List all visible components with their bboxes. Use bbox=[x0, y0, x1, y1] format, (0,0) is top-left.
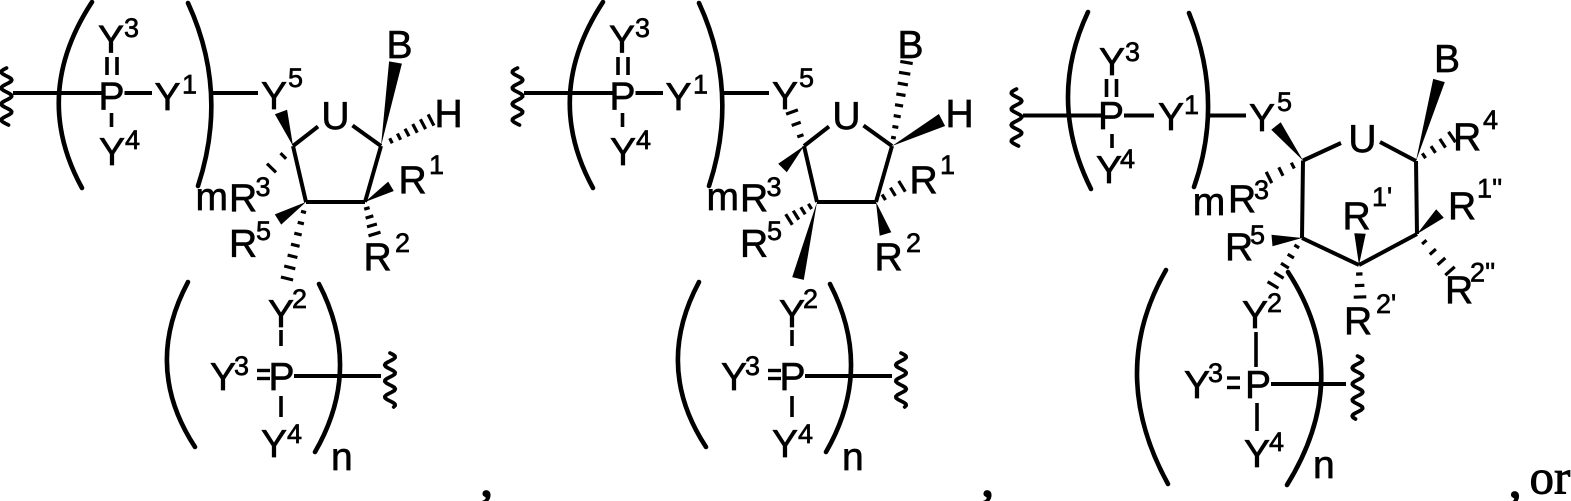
svg-text:Y: Y bbox=[609, 19, 635, 62]
svg-text:4: 4 bbox=[1120, 144, 1135, 174]
svg-text:R: R bbox=[1343, 195, 1371, 238]
left parenthesis (S3 top) bbox=[1068, 12, 1091, 189]
squiggle attachment point (S3 bottom) bbox=[1352, 356, 1363, 419]
svg-text:Y: Y bbox=[1249, 97, 1275, 140]
label Y1 (S1) bbox=[155, 70, 198, 120]
svg-text:Y: Y bbox=[610, 131, 636, 174]
wire bond squiggle-P (S2) bbox=[524, 91, 614, 95]
label Y1 (S2) bbox=[666, 70, 709, 120]
left parenthesis (S2 top) bbox=[570, 2, 603, 188]
svg-text:5: 5 bbox=[256, 216, 271, 246]
right parenthesis (S3 bottom) bbox=[1287, 272, 1321, 485]
ring bond C3-C2 (S1) bbox=[306, 200, 365, 204]
wire bond Y2-P (S1 bottom) bbox=[279, 330, 283, 346]
label R3 (S3) bbox=[1228, 175, 1269, 221]
svg-text:m: m bbox=[1193, 181, 1226, 224]
wire bond P-Y1 (S3) bbox=[1124, 114, 1154, 118]
svg-text:3: 3 bbox=[767, 172, 782, 202]
svg-text:3: 3 bbox=[1208, 358, 1223, 388]
label Y3 (S1 bottom) bbox=[210, 351, 249, 399]
wire bond squiggle-P (S3) bbox=[1023, 114, 1101, 118]
double bond Y3=P (S3 bottom) bbox=[1227, 378, 1240, 388]
svg-text:Y: Y bbox=[1244, 433, 1270, 476]
ring bond U-Ctr (S3) bbox=[1380, 142, 1416, 161]
ring bond U-C1 (S1) bbox=[353, 126, 382, 147]
label subscript m (S2) bbox=[707, 176, 740, 219]
wedge bond Ctr-B (S3) bbox=[1416, 79, 1445, 161]
right parenthesis (S3 top) bbox=[1189, 13, 1208, 187]
svg-text:5: 5 bbox=[1277, 87, 1292, 117]
svg-text:Y: Y bbox=[1099, 41, 1125, 84]
svg-text:4: 4 bbox=[1483, 105, 1498, 135]
label R2 (S2) bbox=[875, 228, 922, 279]
wire bond paren-Y5 (S3) bbox=[1206, 114, 1246, 118]
hash bond C2-R2 (S1) bbox=[364, 208, 380, 236]
svg-text:Y: Y bbox=[210, 356, 236, 399]
svg-text:Y: Y bbox=[155, 76, 181, 119]
label R5 (S1) bbox=[229, 216, 271, 266]
label U (S3) bbox=[1348, 118, 1376, 161]
svg-text:R: R bbox=[740, 177, 768, 220]
svg-text:P: P bbox=[779, 356, 805, 399]
wedge bond Cl-R5 (S3) bbox=[1272, 235, 1303, 246]
label B (S3) bbox=[1434, 38, 1460, 81]
label H (S1) bbox=[435, 93, 463, 136]
right parenthesis (S2 top) bbox=[699, 3, 722, 186]
svg-text:U: U bbox=[832, 95, 860, 138]
wedge bond C2-R1 (S1) bbox=[365, 182, 394, 202]
svg-text:3: 3 bbox=[745, 351, 760, 381]
label R2 (S1) bbox=[364, 228, 411, 279]
label Y4 (S1 top) bbox=[99, 125, 140, 174]
svg-text:n: n bbox=[1313, 444, 1335, 487]
svg-text:3: 3 bbox=[1125, 37, 1140, 67]
squiggle attachment point (S3) bbox=[1011, 89, 1022, 146]
double bond P=Y3 (S1) bbox=[107, 57, 117, 75]
svg-text:Y: Y bbox=[261, 423, 287, 466]
wire bond P-Y4 (S1 bottom) bbox=[279, 396, 283, 417]
wire bond P-Y4 (S2 bottom) bbox=[790, 396, 794, 417]
svg-text:P: P bbox=[609, 76, 635, 119]
svg-text:U: U bbox=[1348, 118, 1376, 161]
hash bond Cb-R2p (S3) bbox=[1354, 274, 1367, 297]
svg-text:3: 3 bbox=[124, 13, 139, 43]
label Y5 (S3) bbox=[1249, 87, 1292, 140]
label subscript n (S2) bbox=[842, 436, 864, 479]
svg-text:2: 2 bbox=[292, 284, 307, 314]
label U (S1) bbox=[321, 95, 349, 138]
label R1p (S3) bbox=[1343, 182, 1393, 238]
label Y4 (S1 bottom) bbox=[261, 419, 302, 466]
svg-text:R: R bbox=[229, 177, 257, 220]
ring bond U-C1 (S2) bbox=[864, 126, 893, 147]
double bond P=Y3 (S3) bbox=[1107, 79, 1117, 97]
svg-text:,: , bbox=[481, 452, 493, 501]
squiggle attachment point (S1) bbox=[1, 68, 12, 125]
double bond Y3=P (S2 bottom) bbox=[768, 371, 781, 379]
left parenthesis (S1 top) bbox=[59, 2, 92, 188]
svg-text:Y: Y bbox=[98, 19, 124, 62]
hash bond Ctr-R4 (S3) bbox=[1422, 132, 1455, 158]
right parenthesis (S1 top) bbox=[188, 3, 211, 186]
svg-text:5: 5 bbox=[288, 63, 303, 93]
svg-text:n: n bbox=[331, 436, 353, 479]
svg-text:4: 4 bbox=[798, 419, 813, 449]
hash bond C3-R5 (S2) bbox=[786, 204, 812, 225]
left parenthesis (S1 bottom) bbox=[167, 282, 195, 447]
label P (S3 top) bbox=[1098, 95, 1124, 138]
svg-text:or: or bbox=[1530, 450, 1571, 501]
svg-text:1: 1 bbox=[429, 150, 444, 180]
wire bond P-squiggle (S3 bottom) bbox=[1271, 382, 1346, 386]
wedge bond C2-R2 (S2) bbox=[876, 202, 891, 236]
svg-text:2: 2 bbox=[803, 284, 818, 314]
wire bond P-squiggle (S2 bottom) bbox=[805, 374, 892, 378]
left parenthesis (S3 bottom) bbox=[1137, 270, 1168, 484]
label Y2 (S1) bbox=[268, 284, 307, 336]
hash bond C3-Y2 (S1) bbox=[281, 211, 306, 280]
ring bond C4-C3 (S1) bbox=[293, 146, 306, 202]
svg-text:Y: Y bbox=[1096, 149, 1122, 192]
svg-text:Y: Y bbox=[99, 131, 125, 174]
label P (S1 top) bbox=[98, 76, 124, 119]
ring bond U-C4 (S1) bbox=[293, 127, 318, 147]
svg-text:U: U bbox=[321, 95, 349, 138]
label subscript n (S1) bbox=[331, 436, 353, 479]
label R4 (S3) bbox=[1453, 105, 1498, 159]
svg-text:P: P bbox=[268, 356, 294, 399]
svg-text:1: 1 bbox=[1184, 90, 1199, 120]
svg-text:3: 3 bbox=[635, 13, 650, 43]
svg-text:Y: Y bbox=[1158, 96, 1184, 139]
label R1 (S2) bbox=[910, 150, 956, 202]
label Y4 (S3 bottom) bbox=[1244, 427, 1284, 476]
svg-text:4: 4 bbox=[125, 125, 140, 155]
label P (S2 bottom) bbox=[779, 356, 805, 399]
label B (S2) bbox=[898, 24, 924, 67]
label Y2 (S3) bbox=[1242, 288, 1282, 337]
label Y4 (S2 top) bbox=[610, 125, 651, 174]
svg-text:m: m bbox=[196, 176, 229, 219]
hash bond C1-B (S2) bbox=[891, 61, 913, 138]
label B (S1) bbox=[387, 24, 413, 67]
hash bond Ctl-R3 (S3) bbox=[1266, 163, 1294, 183]
wire bond squiggle-P (S1) bbox=[13, 91, 103, 95]
wire bond Y2-P (S3 bottom) bbox=[1254, 332, 1258, 367]
svg-text:2: 2 bbox=[906, 228, 921, 258]
wire bond P-Y4 (S1 top) bbox=[110, 113, 114, 127]
label Y3 (S1 top) bbox=[98, 13, 139, 62]
svg-text:R: R bbox=[910, 159, 938, 202]
wedge bond C3-Y2 (S2) bbox=[792, 202, 817, 280]
hash bond C2-R1 (S2) bbox=[882, 181, 905, 200]
wire bond P-Y4 (S3 top) bbox=[1110, 134, 1114, 148]
ring bond Ctr-Cr (S3) bbox=[1416, 161, 1417, 234]
svg-text:B: B bbox=[898, 24, 924, 67]
ring bond C2-C1 (S2) bbox=[876, 146, 892, 202]
ring bond Ctl-Cl (S3) bbox=[1302, 161, 1303, 239]
double bond P=Y3 (S2) bbox=[618, 57, 628, 75]
label subscript m (S3) bbox=[1193, 181, 1226, 224]
svg-text:3: 3 bbox=[256, 172, 271, 202]
svg-text:4: 4 bbox=[287, 419, 302, 449]
svg-text:n: n bbox=[842, 436, 864, 479]
svg-text:3: 3 bbox=[234, 351, 249, 381]
svg-text:4: 4 bbox=[1269, 427, 1284, 457]
svg-text:Y: Y bbox=[1184, 364, 1210, 407]
svg-text:R: R bbox=[364, 236, 392, 279]
svg-text:Y: Y bbox=[779, 293, 805, 336]
label U (S2) bbox=[832, 95, 860, 138]
wedge bond C1-H (S2) bbox=[892, 114, 945, 146]
svg-text:1: 1 bbox=[182, 70, 197, 100]
svg-text:R: R bbox=[740, 223, 768, 266]
ring bond Cb-Cr (S3) bbox=[1359, 234, 1417, 265]
hash bond Cr-R2pp (S3) bbox=[1422, 240, 1455, 275]
structure 1 bbox=[0, 0, 1, 1]
svg-text:Y: Y bbox=[666, 76, 692, 119]
squiggle attachment point (S2) bbox=[512, 68, 523, 125]
squiggle attachment point (S1 bottom) bbox=[385, 353, 396, 407]
label Y5 (S2) bbox=[772, 63, 814, 118]
label H (S2) bbox=[946, 93, 974, 136]
wire bond P-Y4 (S3 bottom) bbox=[1255, 403, 1259, 431]
svg-text:Y: Y bbox=[261, 75, 287, 118]
label subscript m (S1) bbox=[196, 176, 229, 219]
svg-text:H: H bbox=[946, 93, 974, 136]
ring bond U-C4 (S2) bbox=[804, 127, 829, 147]
svg-text:2'': 2'' bbox=[1470, 258, 1495, 288]
right parenthesis (S1 bottom) bbox=[315, 284, 340, 452]
svg-text:Y: Y bbox=[772, 423, 798, 466]
label R3 (S2) bbox=[740, 172, 782, 220]
label Y2 (S2) bbox=[779, 284, 818, 336]
wedge bond C1-B (S1) bbox=[381, 61, 402, 146]
label Y3 (S2 bottom) bbox=[721, 351, 760, 399]
hash bond C1-H (S1) bbox=[390, 114, 434, 143]
label Y5 (S1) bbox=[261, 63, 303, 118]
structure 2 bbox=[0, 0, 1, 1]
wire bond P-Y1 (S2) bbox=[636, 91, 664, 95]
svg-text:R: R bbox=[1344, 300, 1372, 343]
wedge bond C4-Y5 (S1) bbox=[275, 110, 293, 146]
ring bond C3-C2 (S2) bbox=[817, 200, 876, 204]
wedge bond C4-R3 (S2) bbox=[778, 146, 804, 172]
svg-text:R: R bbox=[229, 223, 257, 266]
svg-text:H: H bbox=[435, 93, 463, 136]
label Y3 (S3 top) bbox=[1099, 37, 1140, 84]
hash bond C4-Y5 (S2) bbox=[786, 110, 803, 137]
svg-text:Y: Y bbox=[772, 75, 798, 118]
svg-text:R: R bbox=[875, 236, 903, 279]
svg-text:Y: Y bbox=[721, 356, 747, 399]
svg-text:Y: Y bbox=[1242, 294, 1268, 337]
svg-text:4: 4 bbox=[636, 125, 651, 155]
label R2p (S3) bbox=[1344, 289, 1396, 343]
svg-text:R: R bbox=[1228, 178, 1256, 221]
svg-text:5: 5 bbox=[799, 63, 814, 93]
svg-text:2: 2 bbox=[1267, 288, 1282, 318]
svg-text:R: R bbox=[399, 159, 427, 202]
svg-text:R: R bbox=[1225, 226, 1253, 269]
svg-text:,: , bbox=[982, 452, 994, 501]
hash bond Cl-Y2 (S3) bbox=[1268, 245, 1300, 288]
wire bond P-squiggle (S1 bottom) bbox=[294, 374, 381, 378]
label Y1 (S3) bbox=[1158, 90, 1199, 139]
svg-text:2: 2 bbox=[395, 228, 410, 258]
hash bond C4-R3 (S1) bbox=[267, 153, 286, 172]
svg-text:R: R bbox=[1445, 269, 1473, 312]
wire bond P-Y1 (S1) bbox=[125, 91, 153, 95]
svg-text:P: P bbox=[1245, 364, 1271, 407]
left parenthesis (S2 bottom) bbox=[678, 282, 706, 447]
wedge bond C3-R5 (S1) bbox=[275, 202, 306, 225]
svg-text:Y: Y bbox=[268, 293, 294, 336]
label P (S2 top) bbox=[609, 76, 635, 119]
double bond Y3=P (S1 bottom) bbox=[257, 371, 270, 379]
wire bond paren-Y5 (S2) bbox=[722, 91, 769, 95]
label Y4 (S2 bottom) bbox=[772, 419, 813, 466]
label R1pp (S3) bbox=[1448, 174, 1502, 229]
label R5 (S3) bbox=[1225, 220, 1265, 269]
svg-text:5: 5 bbox=[1250, 220, 1265, 250]
svg-text:P: P bbox=[98, 76, 124, 119]
label R5 (S2) bbox=[740, 216, 782, 266]
wire bond Y2-P (S2 bottom) bbox=[790, 330, 794, 346]
label R2pp (S3) bbox=[1445, 258, 1495, 313]
svg-text:5: 5 bbox=[767, 216, 782, 246]
svg-text:R: R bbox=[1448, 185, 1476, 228]
label R1 (S1) bbox=[399, 150, 445, 202]
label R3 (S1) bbox=[229, 172, 271, 220]
svg-text:m: m bbox=[707, 176, 740, 219]
svg-text:R: R bbox=[1453, 116, 1481, 159]
wedge bond Cr-R1pp (S3) bbox=[1417, 209, 1444, 234]
ring bond C2-C1 (S1) bbox=[365, 146, 381, 202]
label P (S3 bottom) bbox=[1245, 364, 1271, 407]
wire bond paren-Y5 (S1) bbox=[211, 91, 258, 95]
wire bond P-Y4 (S2 top) bbox=[621, 113, 625, 127]
svg-text:3: 3 bbox=[1254, 175, 1269, 205]
svg-text:,: , bbox=[1509, 453, 1521, 501]
label subscript n (S3) bbox=[1313, 444, 1335, 487]
label Y3 (S2 top) bbox=[609, 13, 650, 62]
wedge bond Cb-R1p (S3) bbox=[1354, 233, 1365, 265]
wedge bond Ctl-Y5 (S3) bbox=[1271, 122, 1303, 160]
svg-text:1': 1' bbox=[1372, 182, 1392, 212]
svg-text:1'': 1'' bbox=[1477, 174, 1502, 204]
label Y4 (S3 top) bbox=[1096, 144, 1135, 192]
svg-text:1: 1 bbox=[940, 150, 955, 180]
ring bond U-Ctl (S3) bbox=[1303, 143, 1341, 161]
right parenthesis (S2 bottom) bbox=[826, 284, 851, 452]
ring bond Cl-Cb (S3) bbox=[1302, 238, 1359, 265]
svg-text:B: B bbox=[1434, 38, 1460, 81]
svg-text:B: B bbox=[387, 24, 413, 67]
svg-text:2': 2' bbox=[1376, 289, 1396, 319]
svg-text:1: 1 bbox=[693, 70, 708, 100]
ring bond C4-C3 (S2) bbox=[804, 146, 817, 202]
structure 3 bbox=[0, 0, 1, 1]
label Y3 (S3 bottom) bbox=[1184, 358, 1223, 407]
label P (S1 bottom) bbox=[268, 356, 294, 399]
svg-text:P: P bbox=[1098, 95, 1124, 138]
squiggle attachment point (S2 bottom) bbox=[896, 353, 907, 407]
